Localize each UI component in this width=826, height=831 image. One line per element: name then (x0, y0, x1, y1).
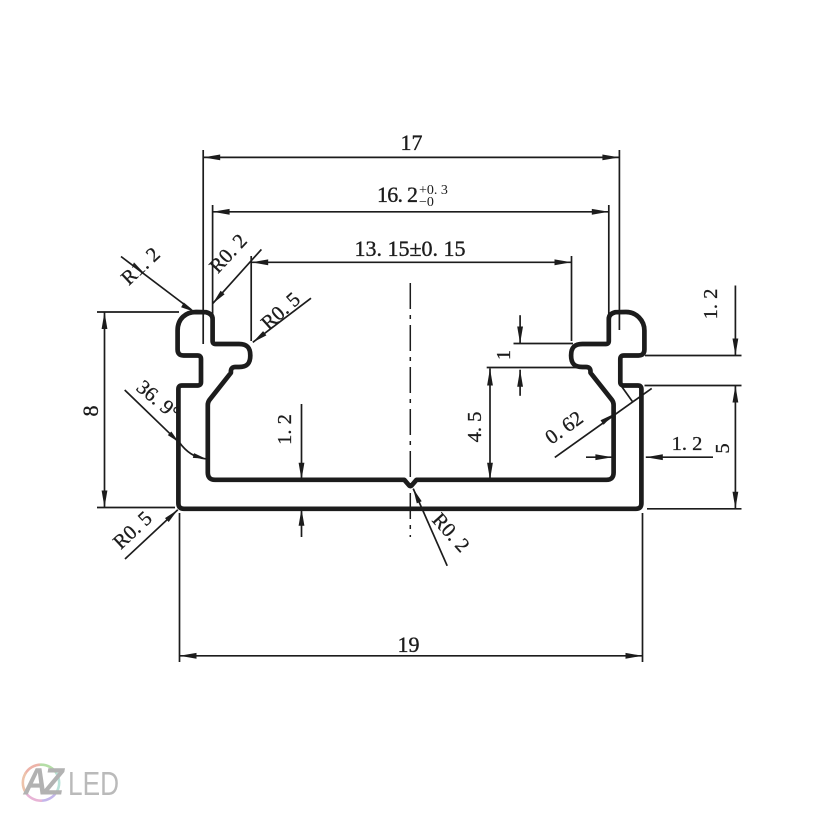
dim 1.2 right line (734, 286, 736, 356)
svg-text:4. 5: 4. 5 (464, 412, 486, 443)
dim 5 line (734, 386, 736, 509)
leader R0.2 bottom (413, 489, 447, 566)
dim 16.2 extension left (212, 205, 214, 315)
dim 17 extension left (202, 150, 204, 344)
svg-text:1. 2: 1. 2 (700, 289, 722, 320)
dim 8 extension bottom (97, 507, 175, 509)
svg-text:LED: LED (68, 765, 119, 802)
dim 13.15 extension left (250, 256, 252, 341)
dim 19 extension right (642, 513, 644, 662)
dim 1.2 floor lower line (301, 509, 303, 537)
dim 8 extension top (97, 311, 179, 313)
svg-text:1. 2: 1. 2 (274, 414, 296, 445)
svg-text:1. 2: 1. 2 (672, 433, 703, 455)
logo ring (23, 765, 59, 801)
svg-text:13. 15±0. 15: 13. 15±0. 15 (354, 236, 465, 261)
dim 13.15 extension right (571, 256, 573, 341)
svg-text:1: 1 (493, 350, 515, 360)
leader R0.5 top (253, 298, 311, 342)
dim 17 extension right (618, 150, 620, 330)
tick 0.62 parallel (621, 385, 633, 401)
dim 1 upper line (519, 315, 521, 343)
dim 1 lower line (519, 370, 521, 396)
arrowheads (102, 155, 739, 659)
leader R0.2 top (213, 249, 262, 303)
svg-text:−0: −0 (419, 195, 434, 210)
centerline (409, 283, 411, 537)
leader 0.62 (555, 388, 652, 457)
svg-text:5: 5 (712, 443, 734, 453)
dim 19 line (180, 655, 643, 657)
dim 8 line (104, 312, 106, 508)
right extension cap underside (645, 355, 742, 357)
dim 17 line (203, 156, 619, 158)
profile outline (178, 312, 645, 509)
dim 1 extension ledge top (514, 343, 574, 345)
svg-text:8: 8 (78, 406, 103, 417)
dim 16.2 extension right (608, 205, 610, 315)
svg-text:19: 19 (398, 632, 420, 657)
dim 13.15 line (251, 261, 571, 263)
logo AZ LED (23, 762, 119, 804)
dim 1.2 wall line right part (646, 456, 713, 458)
svg-text:16. 2: 16. 2 (377, 182, 418, 207)
dim 19 extension left (179, 513, 181, 662)
right extension bottom (647, 508, 742, 510)
svg-text:AZ: AZ (23, 762, 66, 804)
right extension wall top (645, 385, 742, 387)
thin dimension lines (97, 150, 742, 662)
leader R0.5 bottom (125, 510, 178, 559)
leader R1.2 (121, 257, 191, 310)
arc 36.9 (179, 442, 206, 459)
dim 1.2 floor upper line (301, 404, 303, 480)
dimension texts (78, 130, 734, 657)
dim 1.2 wall line left part (586, 456, 612, 458)
leader 36.9 (125, 390, 179, 442)
dim 4.5 line (489, 369, 491, 480)
svg-text:17: 17 (401, 130, 423, 155)
dim 16.2 line (213, 211, 609, 213)
dim 1 extension ledge underside (487, 367, 588, 369)
